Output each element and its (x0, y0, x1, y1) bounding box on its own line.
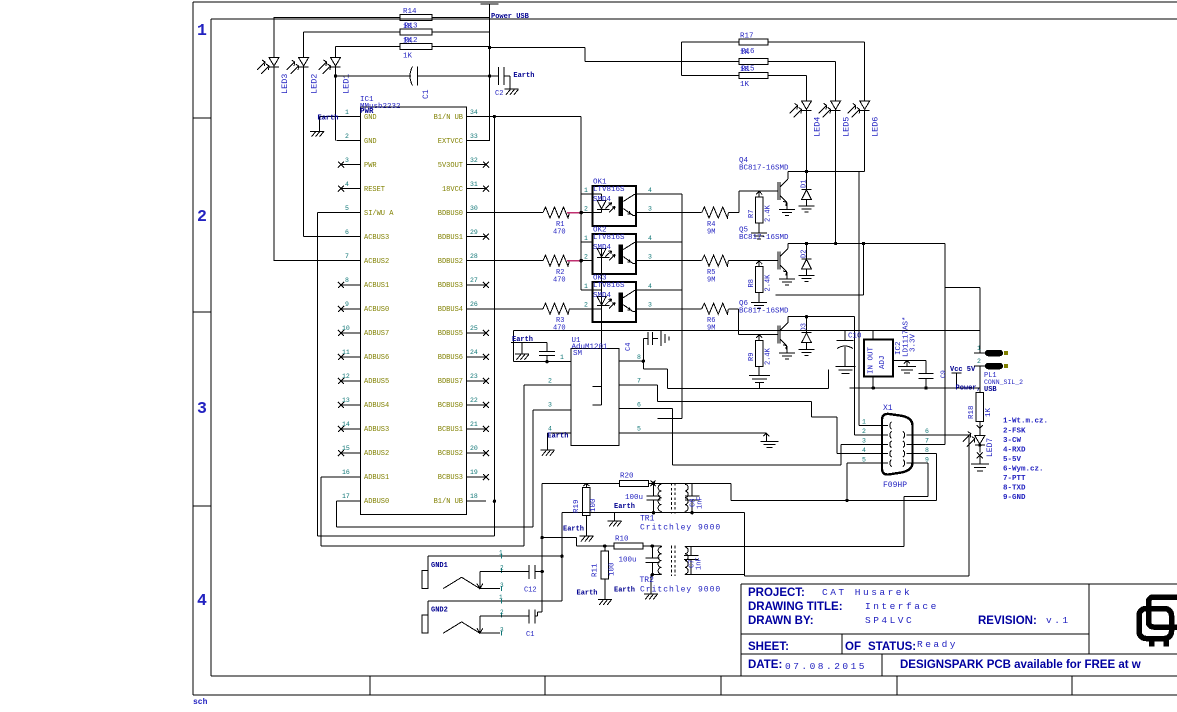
svg-text:2.4K: 2.4K (765, 204, 773, 222)
svg-text:GND1: GND1 (431, 562, 448, 570)
svg-text:11: 11 (342, 349, 350, 356)
wire jack common to TR1 (562, 513, 662, 601)
svg-text:ADBUS7: ADBUS7 (364, 330, 389, 338)
svg-text:ADBUS5: ADBUS5 (364, 378, 389, 386)
svg-text:R7: R7 (748, 210, 756, 218)
wire opto pin4 common vertical (646, 194, 682, 418)
diode D3 (799, 317, 815, 356)
svg-text:C1: C1 (526, 631, 534, 639)
svg-text:R20: R20 (620, 473, 634, 481)
X1 left pin wires (847, 426, 888, 464)
svg-text:8: 8 (925, 447, 929, 454)
resistor R18 (976, 392, 984, 421)
wire X1 pin5 net (846, 463, 848, 500)
wire R13 leads (304, 31, 490, 33)
LED LED2 (287, 58, 309, 75)
svg-text:BDBUS6: BDBUS6 (438, 354, 463, 362)
svg-text:2: 2 (345, 133, 349, 140)
svg-text:LED6: LED6 (871, 117, 881, 137)
IC1 right pin numbers (470, 109, 478, 500)
svg-text:14: 14 (342, 421, 350, 428)
diode D2 (799, 244, 815, 282)
svg-text:2: 2 (584, 206, 588, 213)
svg-text:1: 1 (560, 354, 564, 361)
svg-text:Earth: Earth (512, 336, 533, 344)
svg-text:BC817-16SMD: BC817-16SMD (739, 165, 789, 173)
IC1 right no-connect crosses (483, 162, 489, 481)
svg-text:1nF: 1nF (696, 557, 704, 570)
wire U1 pin6 net to X1 pin3 (619, 408, 869, 464)
svg-text:23: 23 (470, 373, 478, 380)
svg-text:4: 4 (548, 426, 552, 433)
svg-text:1: 1 (499, 594, 503, 601)
svg-text:3: 3 (548, 402, 552, 409)
capacitor C1 (410, 67, 418, 86)
svg-text:7-PTT: 7-PTT (1003, 475, 1026, 483)
svg-text:TR2: TR2 (640, 576, 655, 585)
optocoupler OK1 (593, 186, 636, 226)
svg-text:BCBUS3: BCBUS3 (438, 474, 463, 482)
svg-text:BDBUS1: BDBUS1 (438, 234, 463, 242)
frame bottom column ticks (370, 676, 1072, 695)
svg-text:2: 2 (862, 428, 866, 435)
resistor R8 (756, 267, 764, 293)
PL1 pin pads (985, 350, 1003, 357)
svg-text:C1: C1 (422, 89, 431, 99)
svg-text:1: 1 (584, 187, 588, 194)
IC1 left pin numbers (342, 109, 350, 500)
svg-text:BDBUS5: BDBUS5 (438, 330, 463, 338)
svg-text:4: 4 (648, 187, 652, 194)
svg-text:7: 7 (637, 378, 641, 385)
svg-text:TR1: TR1 (640, 515, 655, 524)
svg-text:DRAWN BY:: DRAWN BY: (748, 615, 814, 627)
svg-text:1: 1 (584, 235, 588, 242)
svg-text:9-GND: 9-GND (1003, 494, 1026, 502)
svg-text:CONN_SIL_2: CONN_SIL_2 (984, 379, 1023, 386)
DesignSpark logo (1139, 597, 1177, 647)
svg-text:ADBUS1: ADBUS1 (364, 474, 389, 482)
svg-text:Critchley 9000: Critchley 9000 (640, 524, 721, 533)
X1 right pin wires (907, 435, 970, 463)
svg-text:LED3: LED3 (280, 74, 290, 94)
svg-text:4: 4 (862, 447, 866, 454)
capacitor TR1 primary 100u (647, 483, 661, 512)
wire X1 pin9 net to TR2 secondary (904, 463, 928, 546)
svg-text:1K: 1K (985, 407, 993, 417)
svg-text:EXTVCC: EXTVCC (438, 138, 463, 146)
wire X1 pin6 net (968, 435, 970, 576)
svg-text:3: 3 (648, 206, 652, 213)
resistor R10 (614, 543, 643, 549)
svg-text:1nF: 1nF (697, 496, 705, 509)
svg-text:BCBUS0: BCBUS0 (438, 402, 463, 410)
svg-text:B1/N UB: B1/N UB (434, 114, 463, 122)
wire right bank leads to LEDs (768, 42, 865, 75)
svg-text:100: 100 (609, 562, 617, 576)
svg-text:C9: C9 (940, 370, 947, 378)
capacitor C8 (685, 483, 700, 512)
svg-text:1: 1 (499, 550, 503, 557)
svg-text:BC817-16SMD: BC817-16SMD (739, 234, 789, 242)
resistor R17 (739, 39, 768, 45)
svg-text:GND2: GND2 (431, 607, 448, 615)
svg-text:R9: R9 (748, 353, 756, 361)
frame row numbers (197, 21, 207, 610)
svg-text:CAT Husarek: CAT Husarek (822, 587, 912, 598)
capacitor C10 (836, 330, 856, 373)
resistor R9 (756, 340, 764, 366)
svg-text:PWR: PWR (364, 162, 377, 170)
svg-text:R16: R16 (741, 48, 755, 56)
IC1 left no-connect crosses (338, 162, 344, 457)
wire audio node vertical (542, 483, 576, 612)
resistor R20 (619, 480, 648, 486)
svg-text:Critchley 9000: Critchley 9000 (640, 586, 721, 595)
wire regulator OUT lead (872, 377, 874, 388)
svg-text:1-Wt.m.cz.: 1-Wt.m.cz. (1003, 418, 1048, 426)
wire TR1 secondary bottom (692, 513, 969, 576)
resistor R16 (739, 59, 768, 65)
svg-text:Earth: Earth (547, 433, 568, 441)
wire U1 pin5 to mid ground (619, 433, 779, 447)
svg-text:2: 2 (500, 565, 504, 572)
svg-text:5-5V: 5-5V (1003, 456, 1022, 464)
svg-text:Power USB: Power USB (491, 13, 530, 21)
svg-text:SM: SM (573, 350, 583, 358)
svg-text:SMD4: SMD4 (593, 196, 612, 204)
wire R10 tap (577, 545, 614, 547)
resistor R1 (486, 207, 570, 218)
ground earth near C2 (505, 89, 519, 95)
svg-text:Earth: Earth (614, 503, 635, 511)
svg-text:2-FSK: 2-FSK (1003, 428, 1026, 436)
svg-text:LTV816S: LTV816S (593, 282, 625, 290)
wire audio rail to R20 (542, 482, 619, 484)
wire pin5 net (318, 213, 495, 536)
svg-text:9: 9 (345, 301, 349, 308)
svg-text:20: 20 (470, 445, 478, 452)
svg-text:R11: R11 (592, 563, 600, 577)
ground earth TR1 (608, 513, 622, 527)
wire U1 pin8 net (619, 361, 829, 388)
svg-text:LED4: LED4 (813, 117, 823, 137)
svg-text:6: 6 (345, 229, 349, 236)
svg-text:34: 34 (470, 109, 478, 116)
svg-text:C10: C10 (848, 333, 862, 341)
svg-text:1: 1 (862, 419, 866, 426)
svg-text:1: 1 (584, 283, 588, 290)
svg-text:19: 19 (470, 469, 478, 476)
svg-text:USB: USB (984, 386, 997, 394)
wire U1 pin7 net to X1 pin4 (619, 385, 869, 454)
signal list labels (1003, 418, 1048, 503)
svg-text:5: 5 (637, 426, 641, 433)
svg-text:ADBUS4: ADBUS4 (364, 402, 389, 410)
ground on U1 pin8 net (749, 376, 770, 389)
svg-text:7: 7 (345, 253, 349, 260)
svg-text:2.4K: 2.4K (765, 347, 773, 365)
svg-text:LTV816S: LTV816S (593, 234, 625, 242)
svg-text:27: 27 (470, 277, 478, 284)
transistor Q5 (778, 244, 795, 286)
wire R12 leads (336, 46, 490, 48)
svg-text:R17: R17 (740, 33, 754, 41)
svg-text:15: 15 (342, 445, 350, 452)
svg-text:C4: C4 (625, 343, 633, 351)
svg-text:GND: GND (364, 114, 377, 122)
svg-text:2.4K: 2.4K (765, 274, 773, 292)
LED LED5 (819, 101, 841, 118)
svg-text:Earth: Earth (318, 115, 339, 123)
svg-text:30: 30 (470, 205, 478, 212)
IC1 right pin names (434, 114, 463, 506)
LED LED7 (963, 428, 989, 471)
svg-text:4-RXD: 4-RXD (1003, 447, 1026, 455)
svg-text:R13: R13 (404, 23, 418, 31)
svg-text:8-TXD: 8-TXD (1003, 485, 1026, 493)
svg-text:28: 28 (470, 253, 478, 260)
resistor R6 (646, 303, 778, 334)
svg-text:3: 3 (862, 438, 866, 445)
svg-text:29: 29 (470, 229, 478, 236)
IC U1 AduM1201 (571, 349, 619, 446)
svg-text:4: 4 (197, 591, 207, 610)
svg-text:LTV816S: LTV816S (593, 186, 625, 194)
jack connector GND1 (422, 556, 562, 588)
svg-text:100u: 100u (625, 494, 643, 502)
svg-text:2: 2 (977, 358, 981, 365)
power symbol Vcc 5V (952, 373, 962, 388)
svg-text:18: 18 (470, 493, 478, 500)
frame inner border (211, 19, 1177, 676)
svg-text:3-CW: 3-CW (1003, 437, 1022, 445)
optocoupler OK3 (593, 282, 636, 322)
wire U1 pin1 from 5V rail (514, 330, 980, 361)
wire pin1 GND to earth (274, 117, 490, 261)
svg-text:Earth: Earth (577, 590, 598, 598)
svg-text:1K: 1K (740, 81, 750, 89)
LED LED1 (319, 58, 341, 75)
svg-text:Earth: Earth (513, 72, 534, 80)
svg-text:ACBUS3: ACBUS3 (364, 234, 389, 242)
svg-text:Interface: Interface (865, 601, 939, 612)
svg-text:ADBUS2: ADBUS2 (364, 450, 389, 458)
svg-text:SMD4: SMD4 (593, 244, 612, 252)
svg-text:R10: R10 (615, 536, 629, 544)
svg-text:BDBUS0: BDBUS0 (438, 210, 463, 218)
svg-text:C2: C2 (495, 90, 503, 98)
junction LED1 row (334, 74, 337, 77)
wire regulator ADJ to ground (893, 361, 926, 374)
svg-text:DRAWING TITLE:: DRAWING TITLE: (748, 601, 843, 613)
ground earth pin1 (310, 131, 324, 137)
wire X1 pin8 net to TR1 secondary (731, 454, 937, 501)
svg-text:3.3V: 3.3V (910, 333, 918, 352)
IC1 right pin stubs (467, 117, 487, 502)
IC1 left pin names (364, 114, 394, 506)
svg-text:Vcc 5V: Vcc 5V (950, 366, 976, 374)
svg-text:ADBUS0: ADBUS0 (364, 498, 389, 506)
svg-text:07.08.2015: 07.08.2015 (785, 661, 867, 672)
svg-text:Ready: Ready (917, 639, 958, 650)
optocoupler OK2 (593, 234, 636, 274)
svg-text:BDBUS7: BDBUS7 (438, 378, 463, 386)
svg-text:470: 470 (553, 229, 566, 237)
svg-text:17: 17 (342, 493, 350, 500)
jack connector GND2 (422, 601, 562, 633)
svg-text:X1: X1 (883, 404, 893, 413)
svg-text:2: 2 (500, 609, 504, 616)
svg-text:BC817-16SMD: BC817-16SMD (739, 308, 789, 316)
wire pink OK2 (567, 260, 580, 262)
transistor Q6 (778, 317, 795, 359)
wire TR2 secondary bottom (685, 572, 745, 575)
svg-text:9M: 9M (707, 325, 715, 333)
svg-text:ADJ: ADJ (879, 355, 887, 369)
svg-text:ACBUS1: ACBUS1 (364, 282, 389, 290)
wire Q6 collector to X1 pin2 (788, 317, 855, 435)
resistor R13 (400, 29, 432, 35)
svg-text:R19: R19 (573, 499, 581, 513)
svg-text:12: 12 (342, 373, 350, 380)
svg-text:470: 470 (553, 325, 566, 333)
svg-text:LED5: LED5 (842, 117, 852, 137)
resistor R11 (601, 551, 609, 579)
svg-text:24: 24 (470, 349, 478, 356)
svg-text:ADBUS3: ADBUS3 (364, 426, 389, 434)
svg-text:DESIGNSPARK PCB available for: DESIGNSPARK PCB available for FREE at w (900, 659, 1141, 671)
svg-text:100: 100 (590, 498, 598, 512)
svg-text:C12: C12 (524, 587, 537, 595)
svg-text:PROJECT:: PROJECT: (748, 587, 805, 599)
capacitor C9 (919, 361, 934, 389)
svg-text:3: 3 (500, 627, 504, 634)
svg-text:9M: 9M (707, 229, 715, 237)
node B1/N UB pin34 (486, 117, 581, 536)
resistor R4 (646, 191, 778, 218)
svg-text:R18: R18 (968, 405, 976, 419)
IC1 left pin stubs (341, 117, 361, 502)
svg-text:R8: R8 (748, 279, 756, 287)
resistor R5 (646, 255, 778, 266)
svg-text:F09HP: F09HP (883, 481, 907, 490)
svg-text:3: 3 (500, 582, 504, 589)
svg-text:9M: 9M (707, 277, 715, 285)
capacitor C3 with earth (511, 343, 555, 362)
svg-text:1: 1 (197, 21, 207, 40)
svg-text:1: 1 (977, 345, 981, 352)
transformer TR1 (658, 483, 731, 514)
resistor R12 (400, 44, 432, 50)
svg-text:Earth: Earth (563, 526, 584, 534)
wire U1 pin3 net to IC1 pin17 (336, 410, 571, 527)
svg-text:Earth: Earth (614, 587, 635, 595)
capacitor C7 (684, 547, 699, 573)
svg-text:R15: R15 (741, 66, 755, 74)
capacitor C2 (498, 67, 504, 85)
svg-text:26: 26 (470, 301, 478, 308)
diode D1 (799, 172, 815, 213)
resistor R2 (486, 255, 570, 266)
svg-text:8: 8 (637, 354, 641, 361)
svg-text:SMD4: SMD4 (593, 292, 612, 300)
svg-text:6-Wym.cz.: 6-Wym.cz. (1003, 466, 1044, 474)
svg-text:IN OUT: IN OUT (868, 346, 876, 374)
resistor R19 (583, 488, 591, 516)
wire LED1 C1 C2 row (336, 76, 511, 89)
svg-text:3: 3 (197, 399, 207, 418)
svg-text:32: 32 (470, 157, 478, 164)
svg-text:5: 5 (862, 457, 866, 464)
svg-text:SP4LVC: SP4LVC (865, 615, 914, 626)
svg-text:470: 470 (553, 277, 566, 285)
resistor R15 (739, 73, 768, 79)
capacitor TR2 primary 100u (645, 546, 659, 575)
svg-text:B1/N UB: B1/N UB (434, 498, 463, 506)
wire U1 pin2 net to IC1 pin16 (321, 385, 571, 546)
svg-text:25: 25 (470, 325, 478, 332)
svg-text:LED7: LED7 (986, 438, 995, 457)
svg-text:2: 2 (548, 378, 552, 385)
svg-text:Power,: Power, (956, 385, 981, 393)
svg-text:5: 5 (345, 205, 349, 212)
svg-text:4: 4 (345, 181, 349, 188)
capacitor C12 (500, 565, 542, 579)
capacitor C4 with ground (643, 331, 669, 361)
svg-text:SHEET:: SHEET: (748, 641, 789, 653)
svg-text:GND: GND (364, 138, 377, 146)
svg-text:3: 3 (648, 254, 652, 261)
frame row dividers (193, 118, 211, 506)
svg-text:100u: 100u (619, 557, 637, 565)
svg-text:sch: sch (193, 698, 208, 707)
resistor R3 (486, 303, 582, 314)
svg-text:OF: OF (845, 641, 861, 653)
svg-text:7: 7 (925, 438, 929, 445)
svg-text:ACBUS2: ACBUS2 (364, 258, 389, 266)
svg-text:6: 6 (925, 428, 929, 435)
wire U1 pin4 to earth (541, 433, 572, 455)
svg-text:2: 2 (584, 302, 588, 309)
svg-text:BCBUS1: BCBUS1 (438, 426, 463, 434)
svg-text:ACBUS0: ACBUS0 (364, 306, 389, 314)
svg-text:8: 8 (345, 277, 349, 284)
capacitor C1 bottom (500, 609, 542, 623)
svg-text:33: 33 (470, 133, 478, 140)
svg-text:BDBUS3: BDBUS3 (438, 282, 463, 290)
svg-text:5V3OUT: 5V3OUT (438, 162, 463, 170)
svg-text:13: 13 (342, 397, 350, 404)
svg-text:4: 4 (648, 235, 652, 242)
resistor R14 (400, 15, 432, 21)
svg-text:v.1: v.1 (1046, 615, 1071, 626)
resistor R7 (756, 197, 764, 223)
wire Q4 collector (788, 172, 865, 426)
svg-text:ADBUS6: ADBUS6 (364, 354, 389, 362)
svg-text:16: 16 (342, 469, 350, 476)
svg-text:D1: D1 (801, 180, 809, 188)
svg-text:2: 2 (197, 207, 207, 226)
svg-text:2: 2 (584, 254, 588, 261)
svg-text:6: 6 (637, 402, 641, 409)
svg-text:BCBUS2: BCBUS2 (438, 450, 463, 458)
LED LED3 (257, 58, 279, 75)
svg-text:4: 4 (648, 283, 652, 290)
connector PL1 (945, 287, 985, 388)
wire R14 leads (274, 18, 739, 76)
svg-text:LED1: LED1 (342, 74, 352, 94)
